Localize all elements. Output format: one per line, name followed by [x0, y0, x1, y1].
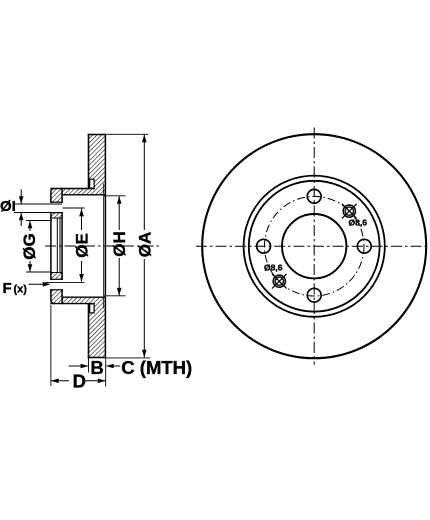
- dimension lines left view: [14, 134, 150, 386]
- dim D line: [51, 380, 69, 382]
- dim A arrowheads: [142, 135, 147, 143]
- brake band outline: [89, 134, 106, 136]
- hat plate inner edges: [62, 194, 105, 196]
- bolt circle centerline: [264, 196, 364, 296]
- dim H leader lines: [118, 196, 120, 230]
- dim B arrowheads: [81, 364, 89, 369]
- svg-text:ØI: ØI: [0, 198, 16, 215]
- svg-text:D: D: [73, 370, 86, 391]
- dim A leader lines: [143, 135, 145, 230]
- hub ring inner circle: [249, 181, 380, 312]
- lug bolt holes N S W E: [257, 189, 371, 302]
- fillet groove upper (white notch in band): [90, 179, 94, 313]
- groove borders: [90, 179, 94, 188]
- vertical centerline: [313, 128, 315, 365]
- hub ring outer circle: [244, 176, 385, 317]
- section hatching: brake band + hat plates + flange wall: [51, 135, 106, 358]
- F arrowhead: [43, 282, 51, 287]
- dimension arrowheads left view: [19, 135, 147, 384]
- dim I arrowheads: [19, 196, 24, 204]
- section outline edges: [51, 135, 106, 358]
- dim I extension lines: [14, 203, 62, 205]
- center bore circle: [282, 214, 346, 278]
- flange face recess edges: [51, 217, 62, 219]
- dim G extension lines: [26, 220, 52, 222]
- set screw hole NE: [342, 204, 357, 219]
- dim B leader lines: [69, 365, 88, 367]
- dim D extension line: [50, 305, 52, 386]
- svg-text:Ø8,6: Ø8,6: [349, 217, 368, 227]
- dim H extension lines: [104, 195, 126, 197]
- mounting bolt hole bores in flange: [51, 201, 62, 203]
- section axis centerline: [45, 245, 160, 247]
- dim E leader lines: [81, 209, 83, 230]
- horizontal centerline: [196, 245, 430, 247]
- svg-text:ØA: ØA: [136, 232, 155, 258]
- svg-text:(x): (x): [14, 284, 28, 296]
- svg-text:ØE: ØE: [72, 233, 91, 258]
- dim H arrowheads: [117, 196, 122, 204]
- svg-text:ØH: ØH: [110, 231, 129, 257]
- hat plate outer edges: [51, 188, 94, 190]
- svg-text:C (MTH): C (MTH): [121, 357, 192, 378]
- dim A extension lines: [106, 133, 149, 135]
- dim B extension lines: [88, 358, 90, 373]
- dim D arrowheads: [51, 379, 59, 384]
- dim E extension lines: [63, 207, 85, 209]
- disc outer circle: [202, 134, 426, 358]
- svg-text:ØG: ØG: [20, 233, 39, 259]
- flange wall inner face: [61, 189, 63, 203]
- F leader line: [29, 283, 49, 285]
- flange wall outer face: [51, 189, 54, 203]
- svg-text:Ø8,6: Ø8,6: [264, 262, 283, 272]
- svg-text:B: B: [90, 357, 103, 378]
- svg-text:F: F: [3, 280, 12, 297]
- hat cylinder edge line: [103, 184, 105, 309]
- dim E arrowheads: [79, 209, 84, 217]
- dim G leader lines: [29, 221, 31, 232]
- dim G arrowheads: [28, 221, 33, 229]
- set screw hole SW: [272, 274, 287, 289]
- dim I leader lines: [20, 190, 22, 205]
